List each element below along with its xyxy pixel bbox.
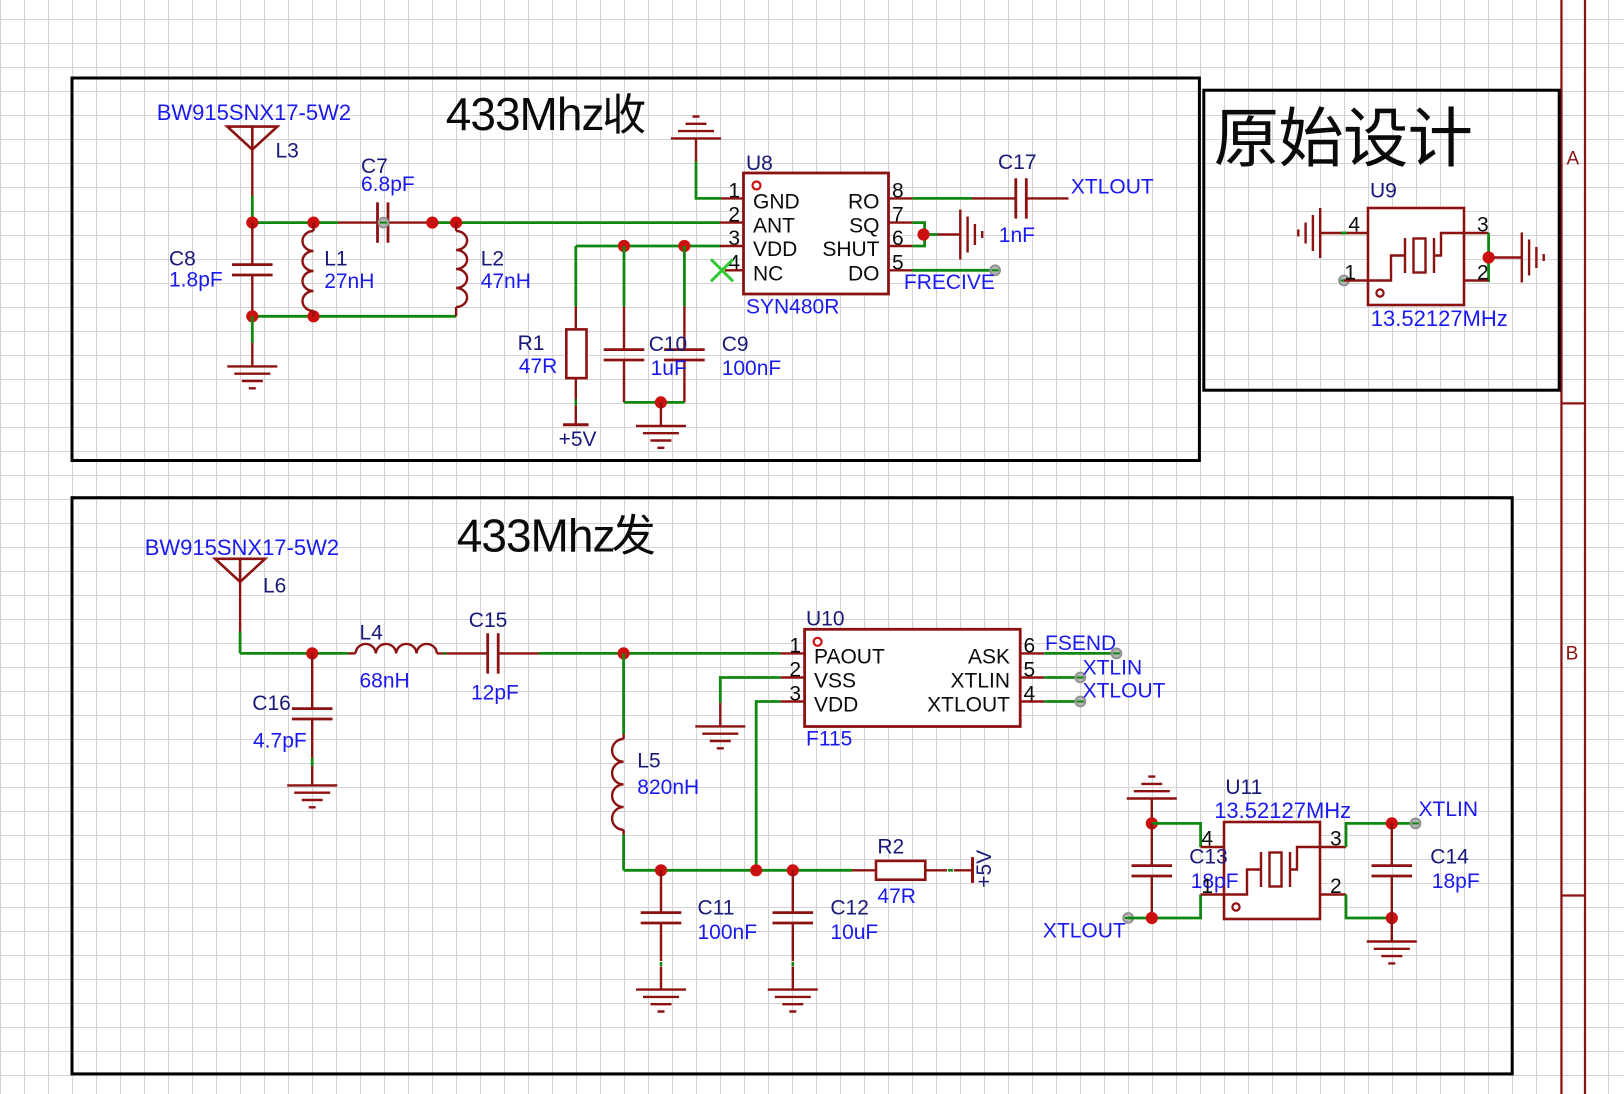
svg-text:47R: 47R	[519, 355, 558, 378]
svg-text:2: 2	[728, 204, 740, 227]
svg-text:1: 1	[789, 634, 801, 657]
svg-text:12pF: 12pF	[471, 682, 519, 705]
svg-text:1: 1	[1344, 262, 1356, 285]
svg-text:U11: U11	[1225, 776, 1262, 799]
svg-text:GND: GND	[753, 190, 800, 213]
svg-text:L3: L3	[276, 139, 299, 162]
svg-text:FSEND: FSEND	[1045, 632, 1116, 655]
svg-text:C12: C12	[830, 897, 869, 920]
svg-text:820nH: 820nH	[637, 776, 699, 799]
svg-text:100nF: 100nF	[698, 921, 758, 944]
svg-text:F115: F115	[806, 728, 852, 751]
svg-text:4.7pF: 4.7pF	[253, 730, 307, 753]
svg-text:2: 2	[1330, 875, 1342, 898]
svg-text:13.52127MHz: 13.52127MHz	[1371, 306, 1508, 331]
svg-text:L6: L6	[263, 574, 286, 597]
svg-text:B: B	[1566, 644, 1579, 665]
svg-text:L1: L1	[324, 248, 347, 271]
svg-text:SQ: SQ	[849, 215, 879, 238]
svg-text:433Mhz: 433Mhz	[446, 88, 604, 140]
svg-text:XTLOUT: XTLOUT	[1043, 920, 1126, 943]
svg-text:XTLOUT: XTLOUT	[1083, 680, 1166, 703]
svg-text:27nH: 27nH	[324, 270, 374, 293]
svg-text:1: 1	[1201, 875, 1213, 898]
svg-text:C11: C11	[698, 897, 735, 920]
svg-text:ASK: ASK	[968, 645, 1010, 668]
svg-text:68nH: 68nH	[360, 670, 410, 693]
svg-text:13.52127MHz: 13.52127MHz	[1214, 798, 1351, 823]
svg-text:C17: C17	[998, 151, 1037, 174]
svg-text:NC: NC	[753, 262, 783, 285]
svg-text:1.8pF: 1.8pF	[169, 269, 223, 292]
svg-text:BW915SNX17-5W2: BW915SNX17-5W2	[145, 535, 339, 560]
svg-text:XTLOUT: XTLOUT	[1071, 176, 1154, 199]
svg-text:SHUT: SHUT	[822, 238, 879, 261]
svg-text:SYN480R: SYN480R	[746, 296, 839, 319]
svg-text:1nF: 1nF	[999, 224, 1035, 247]
svg-text:47nH: 47nH	[481, 270, 531, 293]
svg-text:1uF: 1uF	[651, 357, 687, 380]
svg-text:XTLIN: XTLIN	[950, 670, 1010, 693]
svg-text:3: 3	[1330, 828, 1342, 851]
svg-text:L4: L4	[360, 622, 384, 645]
svg-text:100nF: 100nF	[722, 357, 782, 380]
svg-text:XTLOUT: XTLOUT	[927, 694, 1010, 717]
svg-text:6.8pF: 6.8pF	[361, 173, 415, 196]
svg-text:U8: U8	[746, 152, 773, 175]
svg-text:ANT: ANT	[753, 215, 795, 238]
svg-text:VDD: VDD	[814, 694, 858, 717]
svg-text:4: 4	[1348, 214, 1360, 237]
svg-text:+5V: +5V	[559, 428, 597, 451]
svg-text:R2: R2	[877, 836, 904, 859]
svg-text:C16: C16	[252, 692, 291, 715]
svg-text:C13: C13	[1189, 846, 1228, 869]
svg-text:XTLIN: XTLIN	[1419, 798, 1479, 821]
svg-text:VDD: VDD	[753, 238, 797, 261]
svg-text:RO: RO	[848, 190, 880, 213]
svg-text:C9: C9	[722, 333, 749, 356]
svg-text:C10: C10	[649, 333, 688, 356]
svg-text:U10: U10	[806, 608, 845, 631]
svg-text:C15: C15	[469, 609, 508, 632]
svg-text:U9: U9	[1370, 180, 1397, 203]
svg-text:10uF: 10uF	[830, 921, 878, 944]
svg-text:L2: L2	[481, 248, 504, 271]
svg-text:433Mhz: 433Mhz	[457, 509, 615, 561]
svg-text:BW915SNX17-5W2: BW915SNX17-5W2	[157, 100, 351, 125]
svg-text:FRECIVE: FRECIVE	[904, 271, 995, 294]
svg-text:18pF: 18pF	[1191, 870, 1239, 893]
svg-text:+5V: +5V	[973, 850, 996, 888]
svg-text:C14: C14	[1430, 846, 1469, 869]
svg-text:XTLIN: XTLIN	[1083, 657, 1143, 680]
svg-text:A: A	[1567, 148, 1580, 169]
svg-text:C8: C8	[169, 247, 196, 270]
svg-text:2: 2	[1477, 262, 1489, 285]
svg-text:18pF: 18pF	[1432, 870, 1480, 893]
svg-text:47R: 47R	[877, 885, 916, 908]
svg-text:L5: L5	[637, 749, 660, 772]
svg-text:3: 3	[1477, 214, 1489, 237]
svg-text:PAOUT: PAOUT	[814, 645, 885, 668]
svg-text:VSS: VSS	[814, 670, 856, 693]
svg-text:DO: DO	[848, 262, 880, 285]
svg-text:R1: R1	[518, 332, 545, 355]
